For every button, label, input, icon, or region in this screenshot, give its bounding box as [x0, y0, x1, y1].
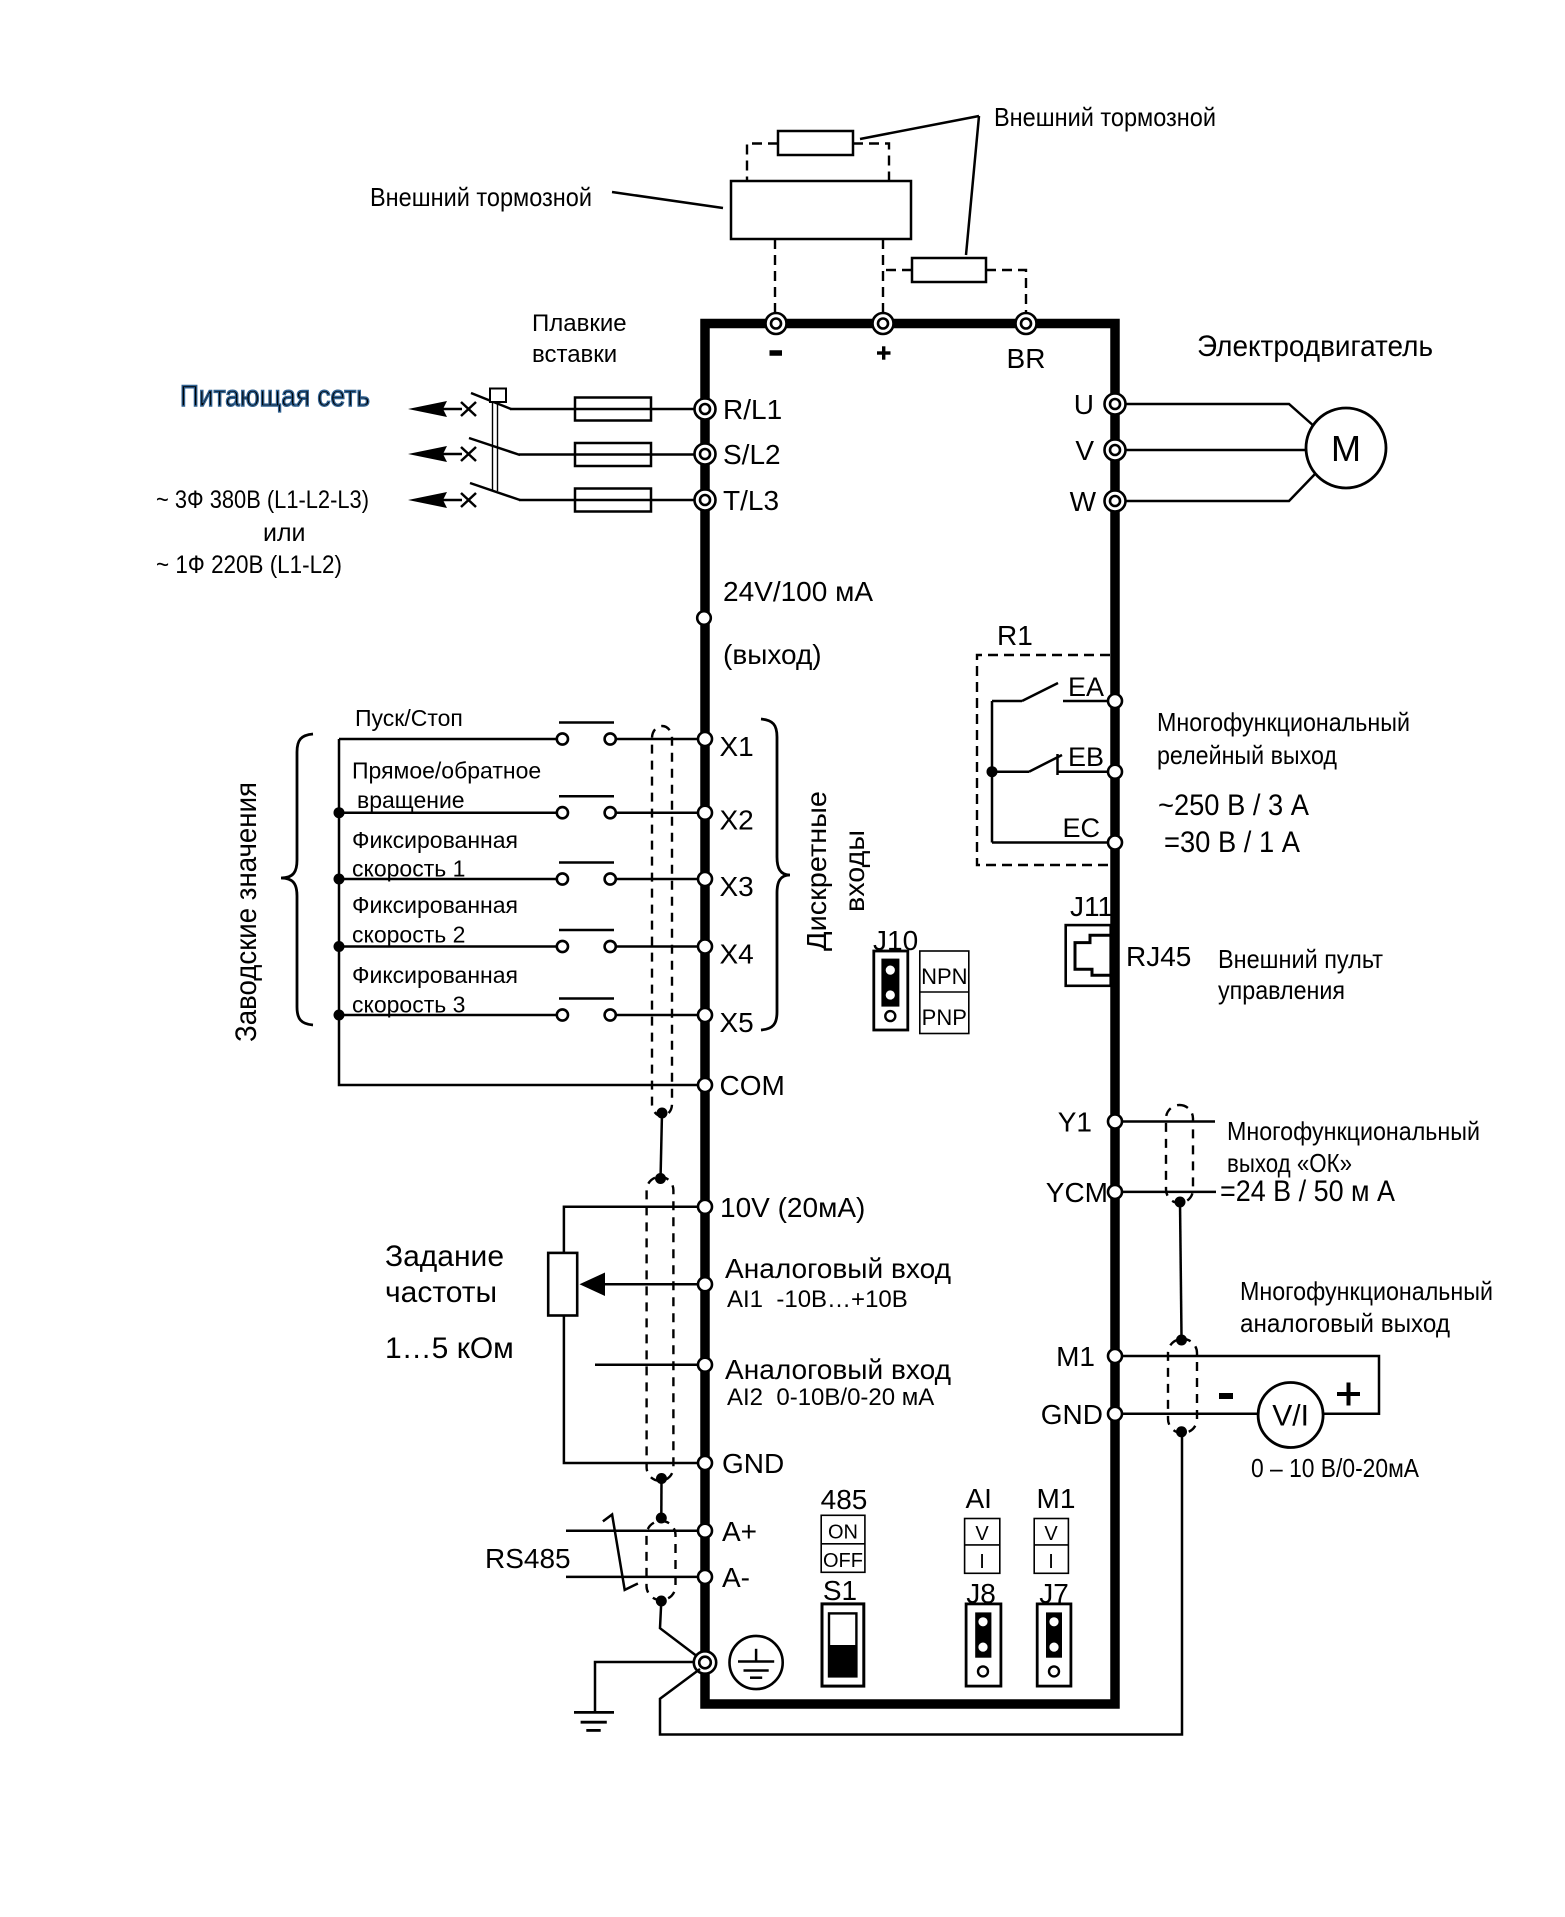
svg-text:GND: GND [722, 1448, 784, 1479]
brace left (Заводские значения) [281, 734, 313, 1025]
fuse R [575, 398, 651, 421]
terminal Y1 [1058, 1107, 1122, 1138]
svg-text:=30 В / 1 А: =30 В / 1 А [1164, 826, 1300, 859]
svg-text:V: V [1075, 435, 1094, 466]
svg-text:Дискретные: Дискретные [801, 791, 832, 951]
terminal A+ [698, 1516, 757, 1547]
terminal EC [1062, 813, 1122, 850]
svg-text:скорость 1: скорость 1 [352, 856, 465, 882]
switch blade S [469, 438, 520, 455]
wire PE to earth [595, 1662, 694, 1712]
svg-text:частоты: частоты [385, 1276, 497, 1309]
svg-text:RJ45: RJ45 [1126, 941, 1191, 972]
shield drain dot (RS485 top) [656, 1513, 667, 1524]
node junction X2 [334, 807, 345, 818]
svg-text:AI: AI [965, 1483, 991, 1514]
protective earth symbol in circle [730, 1636, 783, 1689]
relay common line [991, 701, 994, 843]
terminal S/L2 [695, 439, 781, 470]
svg-text:R1: R1 [997, 620, 1033, 651]
svg-text:BR: BR [1007, 343, 1046, 374]
svg-text:Питающая сеть: Питающая сеть [180, 380, 370, 413]
svg-text:Фиксированная: Фиксированная [352, 892, 518, 918]
label leader line: left "Внешний тормозной" to brake unit [612, 192, 723, 208]
wire AI2 [595, 1363, 698, 1366]
wiper arrowhead [580, 1273, 606, 1297]
svg-text:Внешний тормозной: Внешний тормозной [370, 182, 592, 212]
switch Прямое/обратное вращение (X2) [339, 796, 698, 818]
relay common node [987, 766, 998, 777]
svg-text:S/L2: S/L2 [723, 439, 781, 470]
svg-text:U: U [1074, 389, 1094, 420]
shield drain dot top [655, 1173, 666, 1184]
svg-text:I: I [979, 1551, 985, 1573]
cable shield (RS485) [647, 1521, 676, 1600]
potentiometer 1...5 кОм [548, 1253, 577, 1316]
terminal COM [698, 1070, 785, 1101]
wire M1 to meter plus [1122, 1356, 1379, 1414]
svg-text:=24 В / 50 м А: =24 В / 50 м А [1220, 1175, 1395, 1208]
brake resistor (top, optional) [778, 131, 853, 155]
mains phase R: arrow [408, 401, 447, 417]
svg-text:~ 1Ф 220В (L1-L2): ~ 1Ф 220В (L1-L2) [156, 551, 342, 579]
svg-text:Внешний пульт: Внешний пульт [1218, 944, 1383, 974]
wire W to motor [1126, 474, 1315, 501]
terminal X4 [698, 939, 754, 970]
label plus [1337, 1383, 1360, 1406]
svg-text:X1: X1 [720, 731, 754, 762]
svg-text:PNP: PNP [922, 1005, 967, 1030]
wire potentiometer bottom to GND [564, 1316, 698, 1464]
terminal R/L1 [695, 394, 783, 425]
svg-text:V: V [1044, 1523, 1058, 1545]
svg-text:Аналоговый вход: Аналоговый вход [725, 1253, 951, 1284]
svg-text:Фиксированная: Фиксированная [352, 962, 518, 988]
svg-text:W: W [1070, 486, 1097, 517]
wire shield drain to PE [660, 1601, 698, 1657]
svg-text:485: 485 [821, 1484, 868, 1515]
meter V/I [1258, 1383, 1323, 1448]
svg-text:X4: X4 [720, 939, 754, 970]
wire fuse to T/L3 [651, 499, 696, 502]
NPN/PNP selector box [920, 951, 969, 1034]
wire A- [566, 1576, 698, 1579]
fuse T [575, 489, 651, 512]
wire dashed: brake unit to plus terminal [882, 239, 884, 312]
wire GND to meter [1122, 1413, 1258, 1416]
svg-text:M: M [1331, 428, 1361, 469]
wire AI1 with wiper arrow [604, 1283, 698, 1286]
switch Фиксированная скорость 3 (X5) [339, 999, 698, 1021]
wire analog shield to RS485 shield [660, 1479, 663, 1519]
relay contact EB [992, 754, 1109, 775]
svg-text:J11: J11 [1070, 891, 1113, 922]
svg-text:AI2 0-10В/0-20 мА: AI2 0-10В/0-20 мА [727, 1384, 934, 1411]
terminal "+" [873, 313, 894, 360]
label leader line: top resistor to right label [860, 116, 979, 139]
terminal PE [694, 1651, 716, 1673]
svg-text:входы: входы [839, 830, 870, 912]
jumper J7 [1037, 1604, 1071, 1686]
wire blade to fuse S [519, 453, 575, 456]
jumper J8 [966, 1604, 1001, 1686]
label minus [1219, 1393, 1233, 1399]
switch blade T [470, 483, 520, 500]
svg-text:RS485: RS485 [485, 1543, 571, 1574]
wire PE to bottom screen bus [660, 1432, 1182, 1735]
terminal X2 [698, 805, 754, 836]
svg-text:ON: ON [828, 1522, 858, 1544]
svg-text:R/L1: R/L1 [723, 394, 782, 425]
svg-text:вращение: вращение [357, 787, 465, 813]
svg-text:EC: EC [1062, 813, 1100, 843]
switch linkage bar [490, 389, 506, 492]
svg-text:OFF: OFF [823, 1550, 863, 1572]
terminal U [1074, 389, 1126, 420]
switch Фиксированная скорость 1 (X3) [339, 863, 698, 885]
wire YCM [1122, 1191, 1216, 1194]
svg-text:скорость 2: скорость 2 [352, 922, 465, 948]
wire fuse to R/L1 [651, 408, 696, 411]
svg-text:(выход): (выход) [723, 639, 822, 670]
terminal AI1 [698, 1253, 951, 1313]
svg-text:I: I [1048, 1551, 1054, 1573]
svg-text:YCM: YCM [1046, 1177, 1108, 1208]
svg-text:Многофункциональный: Многофункциональный [1157, 707, 1410, 737]
wire shield to analog shield [661, 1113, 663, 1180]
svg-text:Фиксированная: Фиксированная [352, 827, 518, 853]
cable shield (analog) [647, 1177, 674, 1481]
svg-text:X3: X3 [720, 871, 754, 902]
wire dashed: top resistor left to brake unit [747, 144, 778, 182]
terminal BR [1007, 313, 1046, 374]
shield drain dot [657, 1108, 668, 1119]
wire V to motor [1126, 449, 1306, 452]
terminal A- [698, 1562, 750, 1593]
wire dashed: lower resistor left to plus branch [884, 269, 912, 271]
relay contact EA [992, 683, 1109, 701]
wire blade to fuse R [510, 408, 575, 411]
terminal 10V [698, 1192, 865, 1223]
svg-text:S1: S1 [823, 1575, 857, 1606]
terminal AI2 [698, 1354, 951, 1411]
mains phase S: arrow [408, 446, 447, 462]
svg-text:X2: X2 [720, 805, 754, 836]
svg-text:A-: A- [722, 1562, 750, 1593]
terminal EA [1068, 672, 1122, 708]
wire arrow to x [443, 499, 462, 502]
wire dashed: brake unit to minus terminal [774, 239, 776, 312]
earth ground symbol [574, 1712, 614, 1730]
terminal M1 [1056, 1341, 1122, 1372]
cable shield (M1/GND) [1168, 1339, 1197, 1433]
shield drain dot bottom [656, 1473, 667, 1484]
svg-text:аналоговый выход: аналоговый выход [1240, 1308, 1450, 1338]
svg-text:Внешний тормозной: Внешний тормозной [994, 102, 1216, 132]
svg-text:Многофункциональный: Многофункциональный [1227, 1116, 1480, 1146]
svg-text:10V (20мА): 10V (20мА) [720, 1192, 865, 1223]
twisted pair mark [603, 1515, 638, 1590]
terminal T/L3 [695, 485, 780, 516]
svg-text:Заводские значения: Заводские значения [230, 782, 263, 1042]
terminal GND (analog) [698, 1448, 784, 1479]
fuse S [575, 443, 651, 466]
shield drain dot bottom [1176, 1426, 1187, 1437]
wire arrow to x [443, 408, 462, 411]
shield drain dot bottom [656, 1596, 667, 1607]
wire 10V to potentiometer top [564, 1207, 698, 1253]
svg-text:~ 3Ф 380В (L1-L2-L3): ~ 3Ф 380В (L1-L2-L3) [156, 486, 369, 514]
svg-text:Аналоговый вход: Аналоговый вход [725, 1354, 951, 1385]
svg-text:Y1: Y1 [1058, 1107, 1092, 1138]
motor M [1306, 408, 1386, 488]
terminal X3 [698, 871, 754, 902]
wire dashed: lower resistor right to BR terminal [986, 270, 1026, 312]
svg-text:NPN: NPN [921, 964, 967, 989]
svg-text:релейный выход: релейный выход [1157, 740, 1337, 770]
svg-text:Прямое/обратное: Прямое/обратное [352, 758, 541, 784]
wire Y1 [1122, 1120, 1215, 1123]
shield drain dot [1175, 1197, 1186, 1208]
terminal GND (analog output) [1041, 1399, 1122, 1430]
wire blade to fuse T [519, 499, 575, 502]
terminal "-" [766, 313, 787, 353]
svg-text:24V/100 мА: 24V/100 мА [723, 576, 873, 607]
svg-text:управления: управления [1218, 975, 1345, 1005]
svg-text:V: V [975, 1523, 989, 1545]
mains phase T: arrow [408, 492, 447, 508]
wire shield to shield [1180, 1202, 1182, 1336]
svg-text:A+: A+ [722, 1516, 757, 1547]
terminal W [1070, 486, 1126, 517]
svg-text:GND: GND [1041, 1399, 1103, 1430]
brace right (Дискретные входы) [761, 719, 790, 1030]
label leader line: right label to lower resistor [966, 116, 979, 255]
svg-text:Пуск/Стоп: Пуск/Стоп [355, 705, 463, 731]
switch Фиксированная скорость 2 (X4) [339, 930, 698, 952]
terminal EB [1068, 742, 1122, 779]
relay R1 dashed box [977, 655, 1110, 865]
inverter main box [705, 324, 1115, 1705]
terminal V [1075, 435, 1125, 466]
selector AI V/I [965, 1519, 1000, 1574]
svg-text:M1: M1 [1037, 1483, 1076, 1514]
shield drain dot top [1176, 1335, 1187, 1346]
svg-text:M1: M1 [1056, 1341, 1095, 1372]
selector 485 ON/OFF [821, 1515, 865, 1572]
svg-text:1…5 кОм: 1…5 кОм [385, 1332, 514, 1365]
brake unit box [731, 181, 911, 239]
svg-text:Многофункциональный: Многофункциональный [1240, 1276, 1493, 1306]
node junction X3 [334, 874, 345, 885]
svg-text:выход «ОК»: выход «ОК» [1227, 1148, 1352, 1178]
x mark T [461, 493, 476, 507]
node junction X5 [334, 1010, 345, 1021]
brake resistor (lower, to BR) [912, 258, 986, 282]
switch blade R [471, 393, 511, 409]
terminal 24V output [697, 576, 873, 670]
svg-text:X5: X5 [720, 1007, 754, 1038]
cable shield (discrete inputs) [652, 726, 672, 1116]
svg-text:или: или [263, 519, 306, 547]
svg-text:~250 В / 3 А: ~250 В / 3 А [1158, 789, 1309, 822]
svg-text:скорость 3: скорость 3 [352, 992, 465, 1018]
switch Пуск/Стоп (X1) [339, 723, 698, 745]
terminal X5 [698, 1007, 754, 1038]
svg-text:EA: EA [1068, 672, 1104, 702]
terminal YCM [1046, 1177, 1122, 1208]
svg-text:Задание: Задание [385, 1240, 504, 1273]
discrete inputs left bus [339, 739, 698, 1085]
cable shield (Y1/YCM) [1166, 1105, 1193, 1203]
wire dashed: top resistor right to brake unit [853, 144, 889, 182]
svg-text:T/L3: T/L3 [723, 485, 779, 516]
svg-text:вставки: вставки [532, 341, 617, 368]
switch S1 [822, 1604, 864, 1686]
wire A+ [566, 1529, 698, 1532]
svg-text:V/I: V/I [1272, 1400, 1309, 1433]
wire arrow to x [443, 453, 462, 456]
selector M1 V/I [1034, 1519, 1068, 1574]
x mark S [461, 447, 476, 461]
svg-text:Электродвигатель: Электродвигатель [1197, 330, 1433, 363]
svg-text:0 – 10 В/0-20мА: 0 – 10 В/0-20мА [1251, 1453, 1420, 1483]
x mark R [461, 402, 476, 416]
relay contact EC wire [992, 841, 1109, 844]
svg-text:Плавкие: Плавкие [532, 310, 627, 337]
svg-text:COM: COM [720, 1070, 785, 1101]
wire fuse to S/L2 [651, 453, 696, 456]
node junction X4 [334, 941, 345, 952]
svg-text:EB: EB [1068, 742, 1104, 772]
terminal X1 [698, 731, 754, 762]
wire U to motor [1126, 404, 1315, 427]
svg-text:AI1 -10В…+10В: AI1 -10В…+10В [727, 1286, 908, 1313]
